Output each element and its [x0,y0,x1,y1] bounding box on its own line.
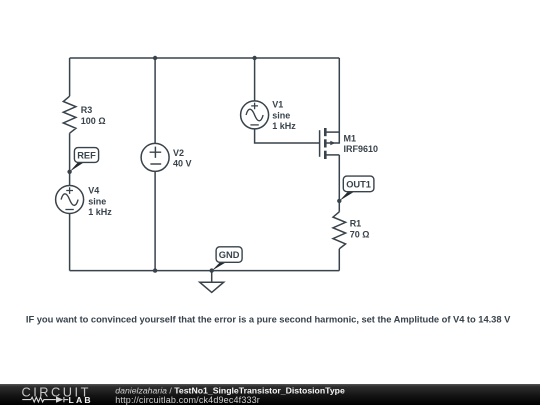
wire M1 drain down to R1 [338,155,340,212]
transistor M1 (PMOS IRF9610) [320,128,340,159]
svg-text:GND: GND [219,250,240,260]
label R1 value [350,218,370,239]
svg-text:OUT1: OUT1 [346,180,371,190]
junction dot GND node [210,268,214,272]
logo CIRCUIT word [22,385,93,405]
svg-text:REF: REF [77,151,96,161]
resistor R3 [63,96,76,133]
junction dot V2 bottom [153,268,157,272]
svg-text:70 Ω: 70 Ω [350,229,370,239]
voltage source V1 (sine) [241,101,269,129]
wire V1 to gate of M1 [255,129,320,143]
ground symbol [200,271,224,293]
svg-text:V2: V2 [173,148,184,158]
label R3 value [81,105,106,126]
svg-text:sine: sine [272,110,290,120]
svg-text:IRF9610: IRF9610 [344,144,379,154]
svg-text:http://circuitlab.com/ck4d9ec4: http://circuitlab.com/ck4d9ec4f333r [115,395,260,405]
voltage source V4 (sine) [56,186,84,214]
node GND label [212,247,242,271]
wire V2 branch lower [154,171,156,270]
svg-text:IF you want to convinced yours: IF you want to convinced yourself that t… [26,313,511,324]
svg-text:R3: R3 [81,105,93,115]
svg-text:R1: R1 [350,218,362,228]
wire bottom horizontal [70,270,340,272]
voltage source V2 (DC) [141,143,169,171]
junction dot REF node [67,170,71,174]
label M1 value [344,133,379,154]
svg-text:M1: M1 [344,133,357,143]
wire V1 branch upper [254,58,256,101]
svg-text:1 kHz: 1 kHz [88,207,112,217]
svg-text:danielzaharia / TestNo1_Single: danielzaharia / TestNo1_SingleTransistor… [115,385,345,395]
label V1 value [272,100,296,132]
node OUT1 label [339,176,374,201]
junction dot V1 top [252,56,256,60]
svg-text:1 kHz: 1 kHz [272,121,296,131]
node REF label [70,148,99,172]
wire left vertical (R3 to V4) [69,133,71,185]
wire V2 branch upper [154,58,156,144]
label V4 value [88,186,112,218]
wire M1 source to top rail [338,58,340,144]
svg-text:100 Ω: 100 Ω [81,116,106,126]
label V2 value [173,148,192,169]
svg-text:sine: sine [88,197,106,207]
svg-text:V1: V1 [272,100,283,110]
junction dot V2 top [153,56,157,60]
svg-text:40 V: 40 V [173,159,192,169]
wire top horizontal [70,57,340,59]
wire R1 to bottom rail [338,249,340,271]
svg-text:LAB: LAB [69,395,93,405]
wire left vertical upper (to R3) [69,58,71,96]
resistor R1 [333,212,346,249]
junction dot OUT1 node [337,199,341,203]
svg-text:V4: V4 [88,186,99,196]
wire left vertical lower (V4 to bottom) [69,213,71,270]
